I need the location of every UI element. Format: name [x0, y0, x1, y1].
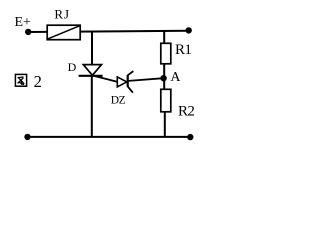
svg-text:A: A — [170, 70, 181, 85]
resistor R1 — [161, 42, 192, 64]
wire top rail to R1 — [163, 31, 165, 44]
wire diode D to bottom rail — [91, 76, 93, 137]
svg-text:D: D — [68, 60, 77, 74]
svg-text:R1: R1 — [175, 42, 191, 58]
wire R2 to bottom rail — [164, 112, 166, 137]
wire node A to R2 — [163, 78, 165, 90]
node top-right junction — [186, 27, 192, 33]
zener diode DZ — [111, 71, 134, 106]
svg-text:2: 2 — [34, 72, 42, 91]
node A — [160, 75, 166, 81]
svg-text:DZ: DZ — [111, 94, 126, 106]
svg-text:E+: E+ — [15, 15, 32, 30]
wire diode D to DZ — [94, 76, 118, 82]
label figure 2 (tu character drawn as strokes) — [15, 72, 41, 91]
wire R1 to node A — [163, 64, 165, 79]
terminal E+ — [25, 29, 31, 35]
resistor R2 — [161, 89, 195, 119]
svg-text:RJ: RJ — [54, 7, 70, 22]
wire DZ to node A — [129, 78, 164, 81]
wire bottom rail — [28, 136, 191, 138]
wire top rail — [28, 31, 189, 32]
svg-text:R2: R2 — [178, 104, 194, 120]
wire to diode D branch — [91, 31, 93, 65]
diode D — [68, 60, 103, 76]
terminal bottom-right — [187, 134, 193, 140]
resistor RJ — [47, 7, 80, 40]
terminal bottom-left — [24, 134, 30, 140]
